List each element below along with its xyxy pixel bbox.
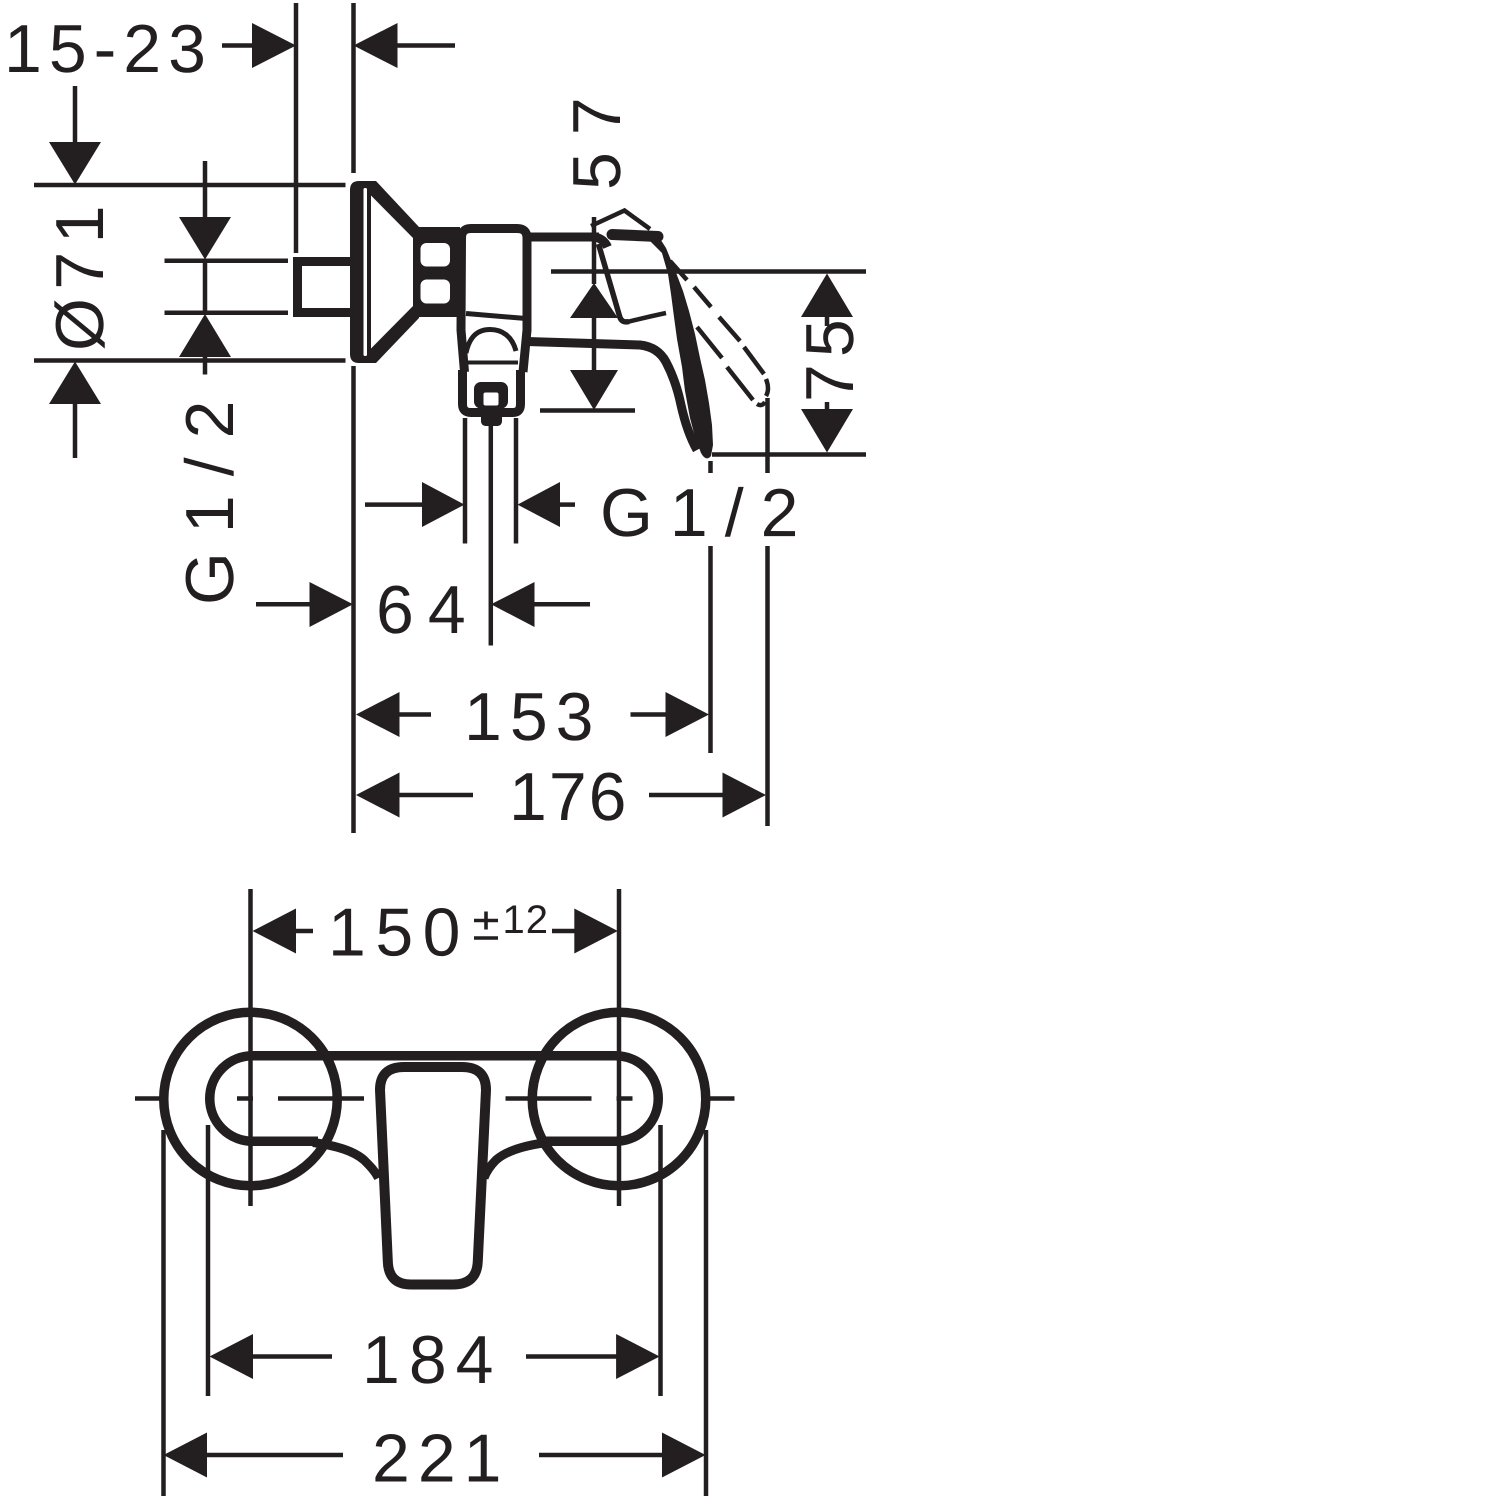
svg-text:150: 150 (328, 895, 470, 971)
svg-text:G1/2: G1/2 (600, 475, 815, 551)
svg-text:184: 184 (362, 1322, 503, 1398)
svg-text:G1/2: G1/2 (172, 382, 248, 605)
svg-text:176: 176 (509, 759, 629, 835)
svg-text:Ø71: Ø71 (42, 197, 118, 351)
svg-text:15-23: 15-23 (4, 11, 213, 87)
svg-text:75: 75 (792, 312, 868, 402)
svg-text:153: 153 (464, 679, 602, 755)
svg-text:64: 64 (376, 572, 480, 648)
svg-text:57: 57 (559, 80, 635, 190)
svg-text:221: 221 (372, 1421, 510, 1497)
